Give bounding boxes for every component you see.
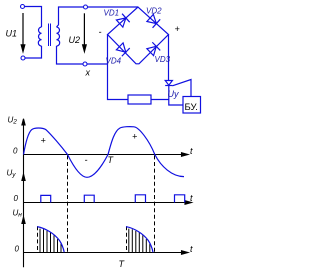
- svg-text:t: t: [190, 193, 193, 203]
- svg-text:Uy: Uy: [7, 169, 17, 179]
- svg-text:t: t: [190, 146, 193, 156]
- svg-text:VD1: VD1: [104, 9, 120, 18]
- svg-text:t: t: [190, 244, 193, 254]
- svg-text:-: -: [99, 27, 102, 37]
- svg-text:БУ.: БУ.: [185, 102, 198, 113]
- svg-text:+: +: [132, 132, 137, 142]
- svg-text:-: -: [85, 155, 88, 165]
- svg-text:0: 0: [13, 147, 18, 156]
- svg-text:VD4: VD4: [106, 57, 122, 66]
- svg-text:U2: U2: [8, 116, 18, 126]
- svg-text:0: 0: [14, 194, 19, 203]
- svg-text:U2: U2: [69, 35, 81, 45]
- svg-text:+: +: [175, 24, 180, 34]
- svg-text:x: x: [85, 68, 91, 78]
- svg-text:Uн: Uн: [13, 209, 23, 219]
- svg-text:Uy: Uy: [168, 89, 179, 99]
- svg-text:VD3: VD3: [155, 55, 171, 64]
- svg-text:T: T: [108, 155, 115, 165]
- svg-text:U1: U1: [6, 29, 18, 39]
- svg-text:T: T: [119, 259, 126, 269]
- svg-text:+: +: [41, 136, 46, 146]
- svg-text:VD2: VD2: [146, 7, 162, 16]
- svg-text:0: 0: [15, 245, 20, 254]
